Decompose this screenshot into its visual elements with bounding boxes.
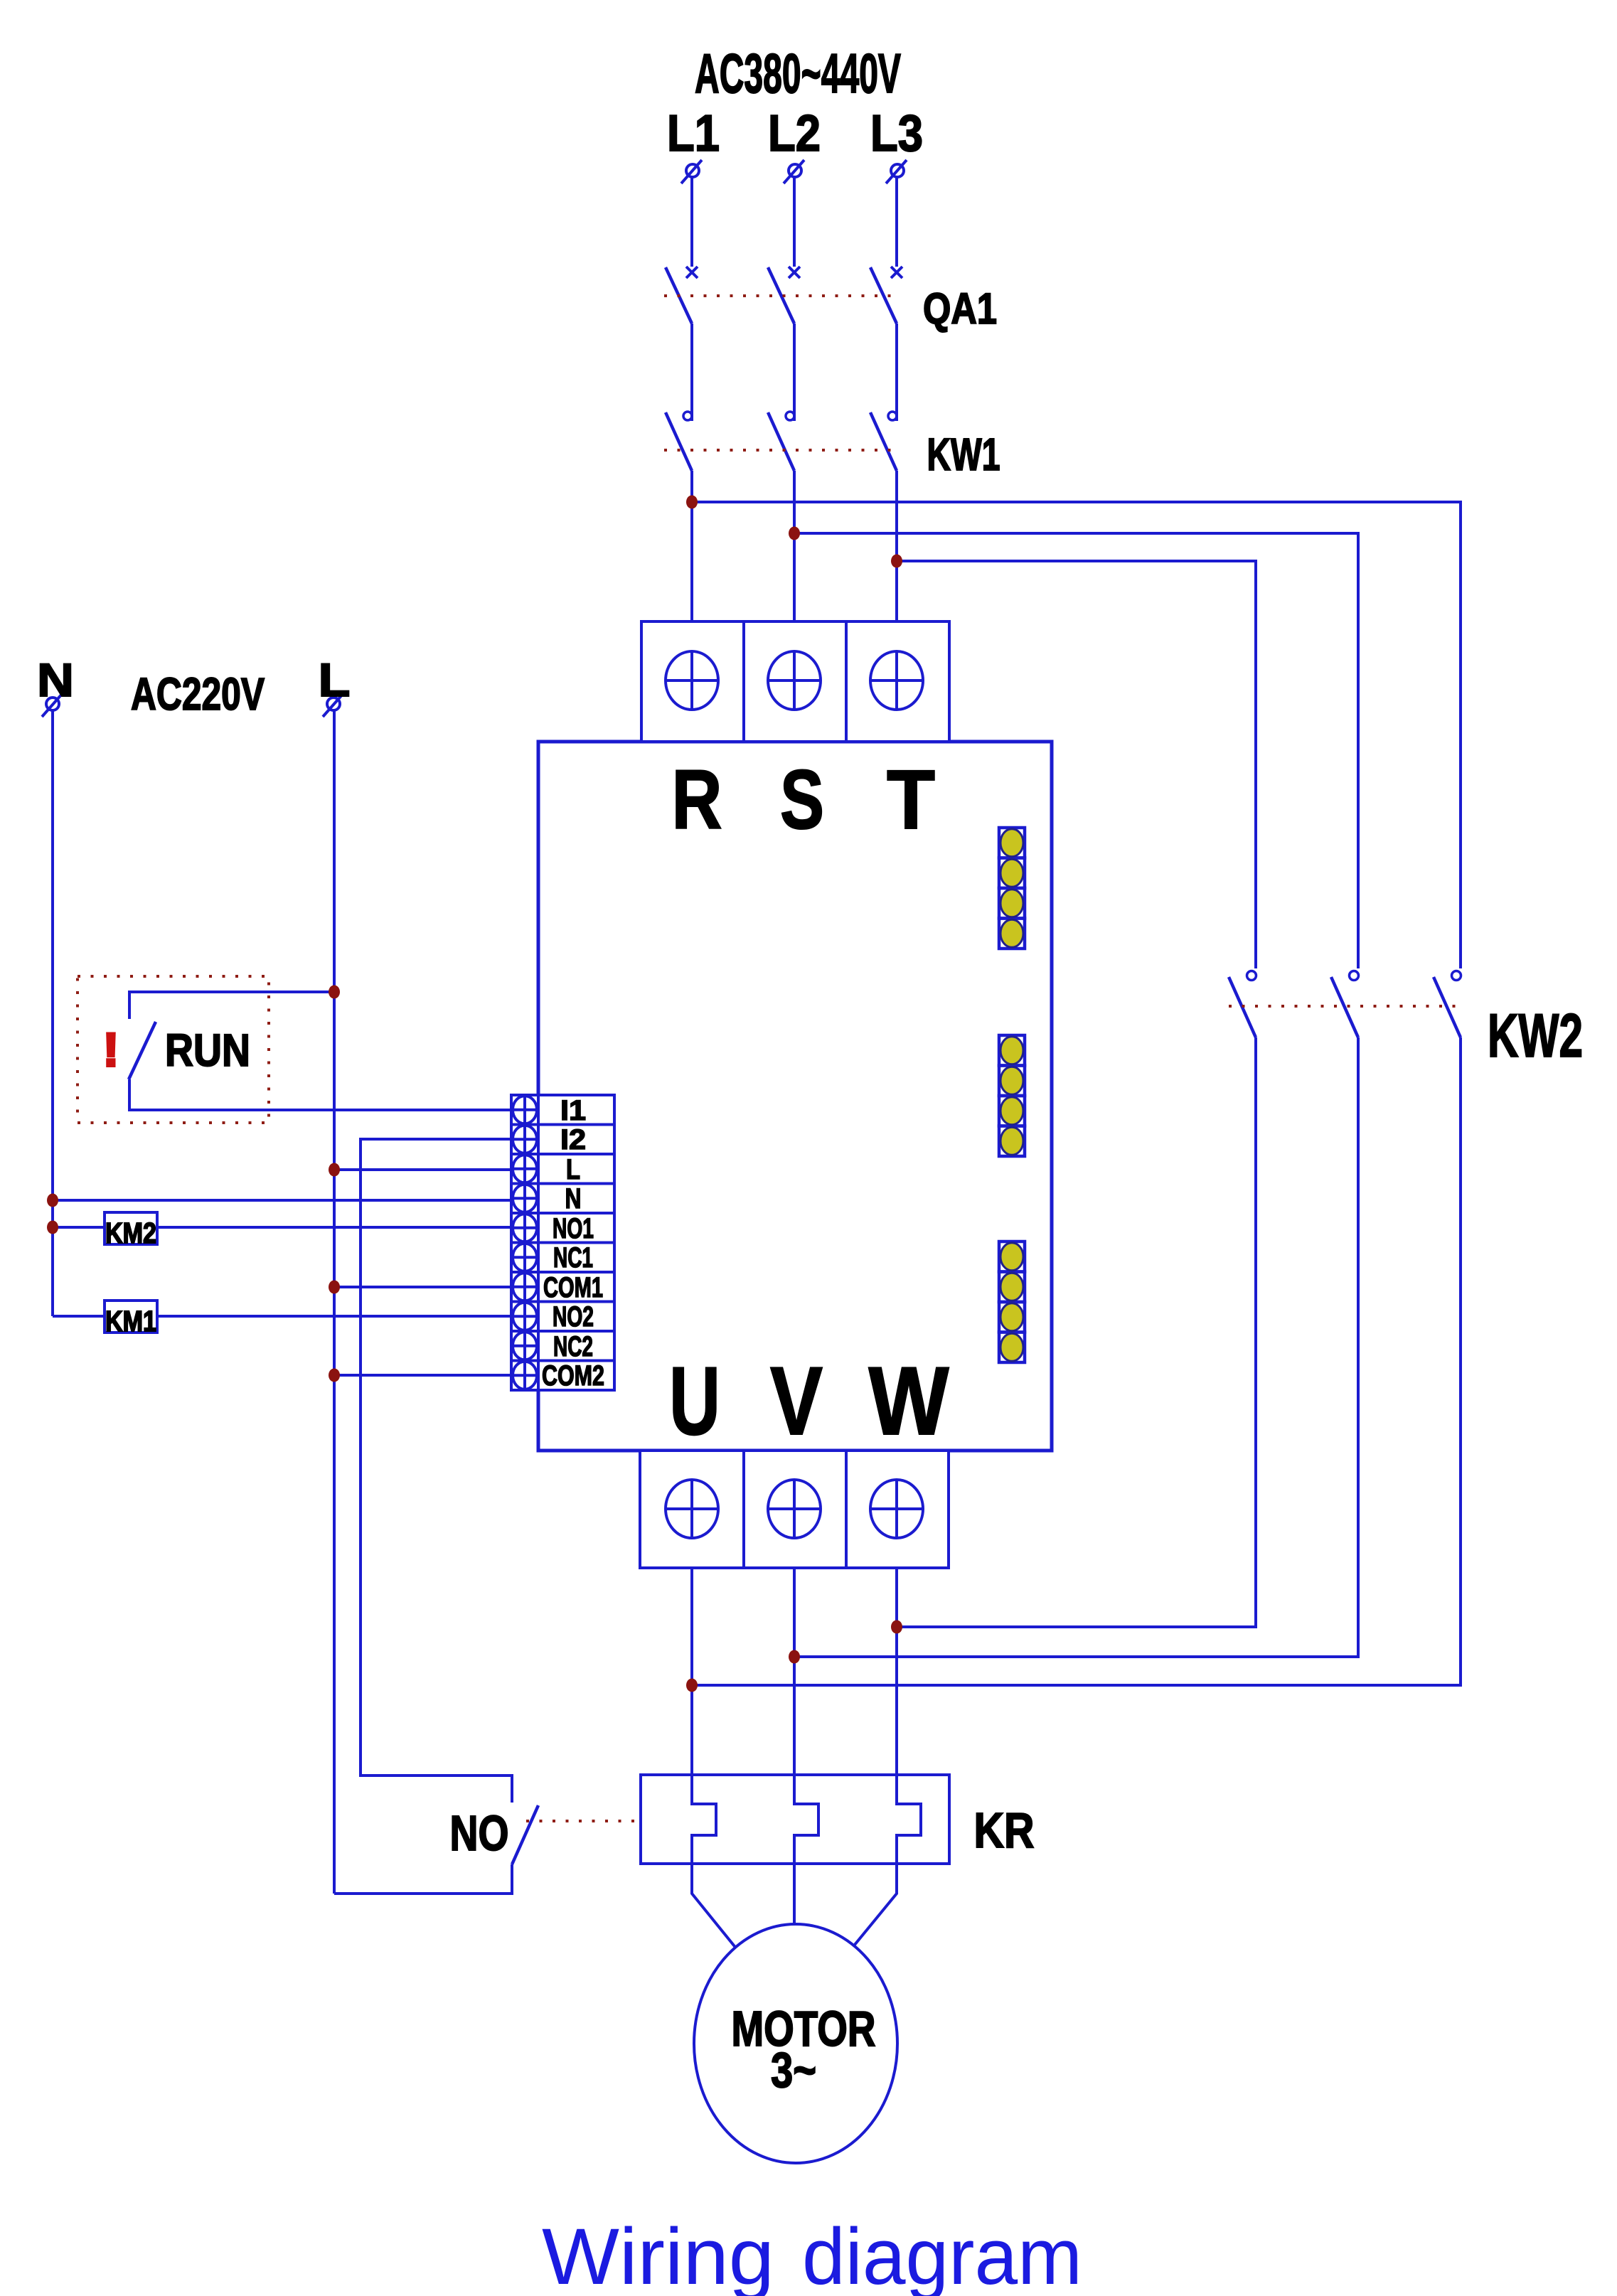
svg-text:AC380~440V: AC380~440V [695,42,901,105]
svg-text:L: L [566,1154,580,1185]
svg-text:N: N [37,653,74,706]
svg-text:I2: I2 [560,1124,586,1155]
svg-text:QA1: QA1 [923,284,997,333]
svg-text:Wiring: Wiring [542,2212,774,2296]
svg-text:R: R [672,753,722,847]
svg-text:COM2: COM2 [542,1360,604,1392]
svg-text:L2: L2 [768,105,821,162]
svg-text:NC1: NC1 [553,1242,593,1274]
svg-text:!: ! [103,1023,119,1076]
svg-text:COM1: COM1 [543,1272,603,1303]
svg-text:NO2: NO2 [553,1301,594,1333]
svg-text:L3: L3 [870,105,923,162]
svg-text:RUN: RUN [165,1025,250,1076]
svg-text:KW2: KW2 [1488,1002,1583,1070]
svg-text:L1: L1 [667,105,720,162]
svg-text:KW1: KW1 [927,429,1000,480]
svg-text:KM2: KM2 [105,1217,156,1249]
svg-text:U: U [669,1347,720,1455]
svg-text:AC220V: AC220V [131,668,265,720]
svg-text:NO1: NO1 [553,1213,594,1244]
svg-text:I1: I1 [560,1095,586,1126]
svg-text:NO: NO [450,1805,509,1861]
svg-text:N: N [565,1183,582,1214]
svg-text:KR: KR [974,1803,1035,1858]
svg-text:KM1: KM1 [105,1305,156,1337]
svg-text:diagram: diagram [802,2212,1082,2296]
svg-text:L: L [319,653,351,706]
svg-text:3~: 3~ [771,2042,816,2098]
svg-text:V: V [770,1347,823,1455]
svg-text:NC2: NC2 [553,1331,593,1362]
svg-text:T: T [887,753,935,847]
svg-text:S: S [780,753,824,847]
svg-text:W: W [869,1347,950,1455]
